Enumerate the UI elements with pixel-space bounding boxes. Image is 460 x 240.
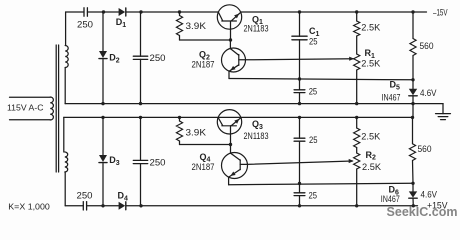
svg-text:250: 250 (77, 19, 93, 29)
svg-text:4.6V: 4.6V (421, 190, 438, 200)
svg-text:2N187: 2N187 (192, 60, 215, 70)
svg-text:K=X 1,000: K=X 1,000 (8, 202, 50, 211)
svg-text:25: 25 (309, 135, 318, 145)
svg-text:2.5K: 2.5K (361, 132, 380, 142)
svg-text:SeekIC.com: SeekIC.com (387, 205, 458, 219)
svg-text:3.9K: 3.9K (186, 128, 207, 138)
svg-text:2.5K: 2.5K (361, 23, 380, 33)
svg-text:25: 25 (309, 190, 318, 200)
svg-text:4.6V: 4.6V (420, 88, 437, 98)
svg-text:560: 560 (420, 41, 434, 51)
svg-text:25: 25 (309, 37, 318, 47)
svg-text:IN467: IN467 (382, 93, 401, 103)
svg-text:2N1183: 2N1183 (244, 24, 269, 34)
svg-text:250: 250 (150, 157, 166, 167)
svg-text:250: 250 (150, 53, 166, 63)
svg-text:2N1183: 2N1183 (244, 131, 269, 141)
svg-text:250: 250 (77, 191, 93, 201)
svg-text:–15V: –15V (433, 7, 448, 17)
svg-text:2.5K: 2.5K (362, 162, 381, 172)
svg-text:560: 560 (418, 144, 432, 154)
svg-text:3.9K: 3.9K (186, 21, 207, 31)
svg-text:115V A-C: 115V A-C (7, 103, 44, 113)
svg-text:2.5K: 2.5K (361, 59, 380, 69)
svg-text:IN467: IN467 (381, 194, 400, 204)
svg-text:25: 25 (309, 87, 318, 97)
svg-text:2N187: 2N187 (192, 162, 215, 172)
